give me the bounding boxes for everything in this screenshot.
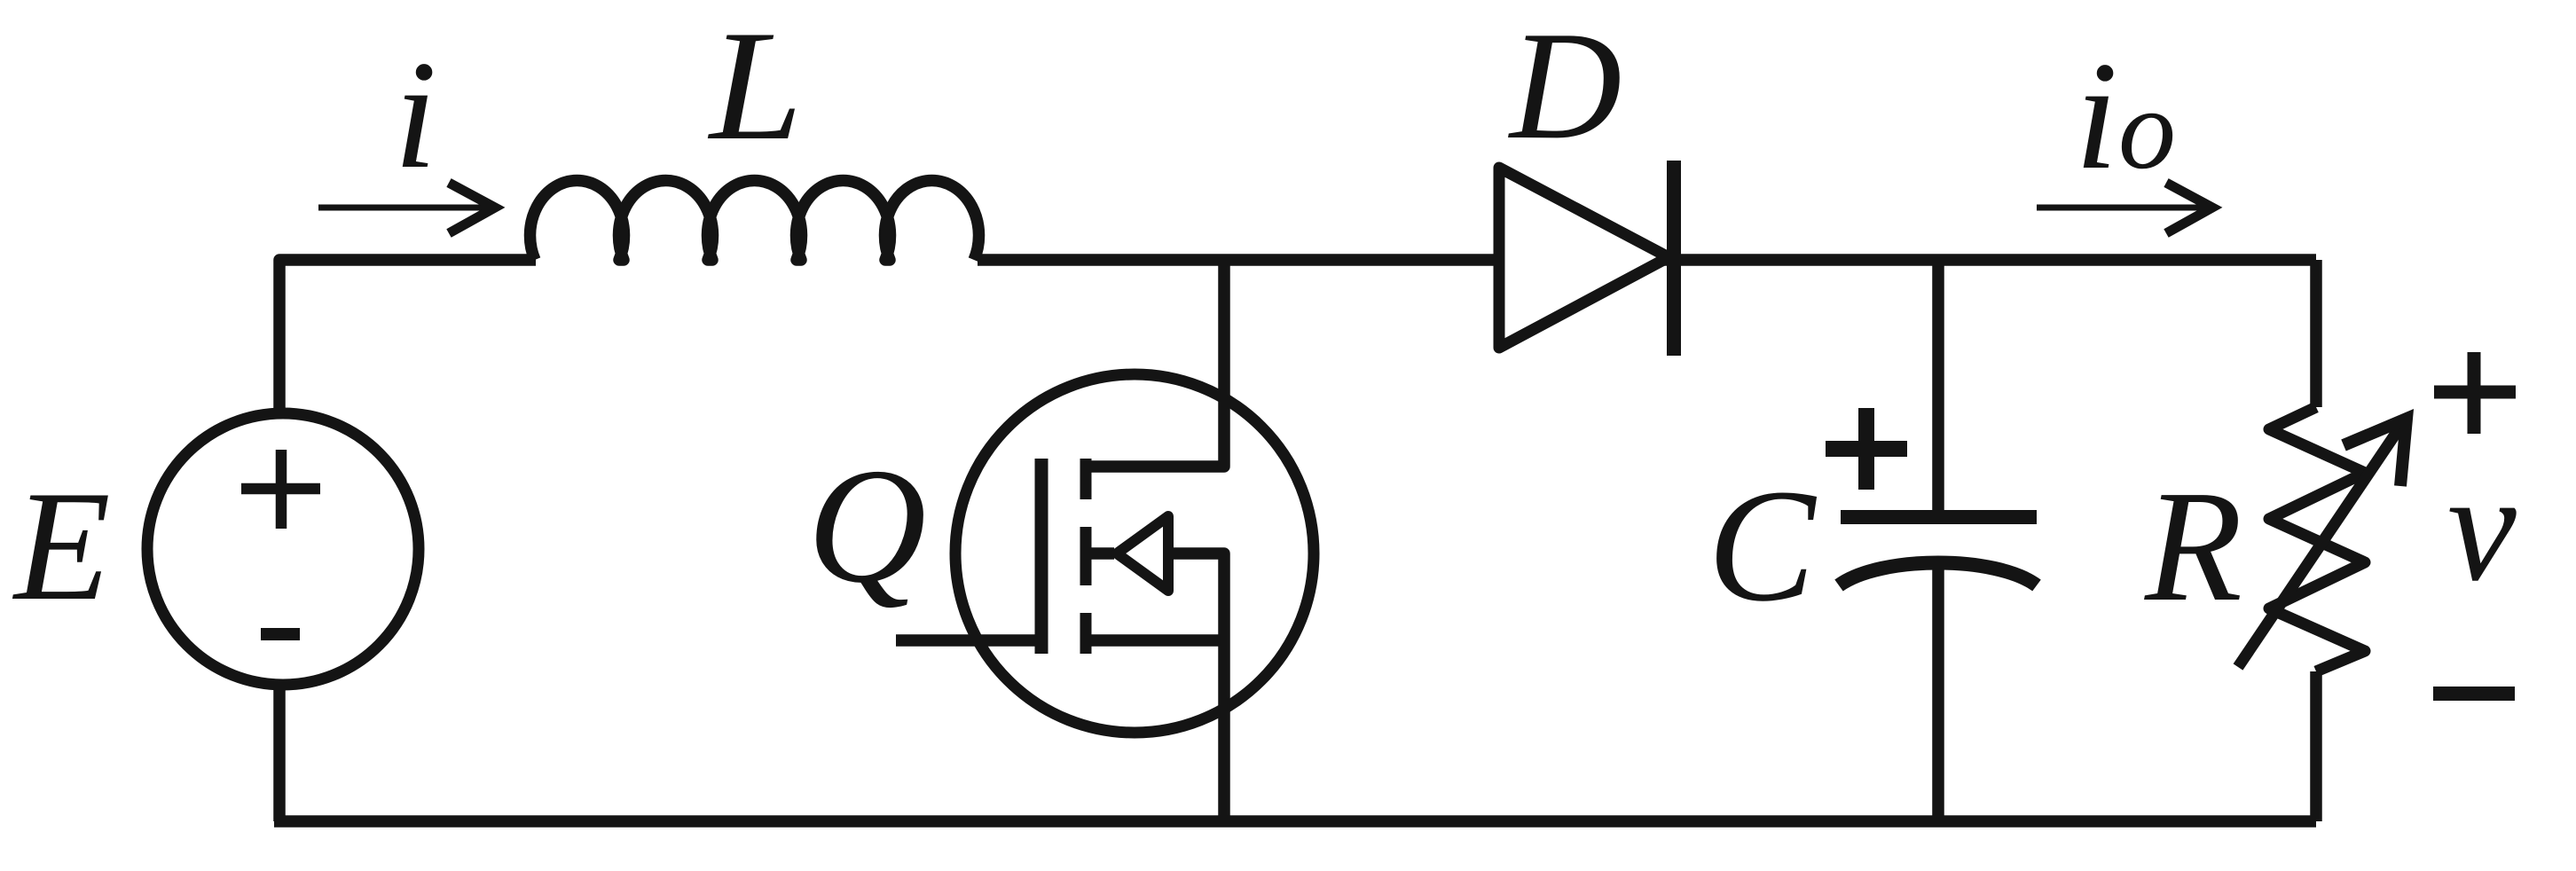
wire: MOSFET source vertical to bottom rail bbox=[1218, 640, 1230, 821]
MOSFET body stub bbox=[1091, 547, 1114, 560]
wire: capacitor top lead bbox=[1932, 260, 1944, 517]
minus sign for v bbox=[2433, 687, 2515, 701]
svg-text:o: o bbox=[2118, 66, 2176, 193]
voltage source E circle bbox=[147, 413, 419, 685]
svg-text:i: i bbox=[2075, 29, 2118, 201]
plus sign inside E bbox=[241, 450, 320, 529]
MOSFET channel bar (dashed) bbox=[1080, 459, 1092, 654]
svg-text:v: v bbox=[2447, 441, 2517, 613]
wire: bottom rail bbox=[274, 815, 2316, 828]
output current arrow io bbox=[2037, 183, 2212, 233]
variable resistor arrow shaft bbox=[2238, 424, 2402, 667]
inductor L bbox=[530, 180, 979, 260]
wire: right vertical from top corner to resistor bbox=[2310, 260, 2322, 407]
wire: MOSFET drain vertical from top rail bbox=[1086, 260, 1224, 467]
MOSFET Q circle bbox=[955, 374, 1314, 733]
resistor R zigzag (variable) bbox=[2269, 407, 2365, 671]
svg-text:i: i bbox=[394, 28, 437, 200]
svg-text:Q: Q bbox=[807, 435, 926, 617]
wire: source branch bbox=[1086, 634, 1224, 647]
MOSFET body arrow triangle bbox=[1117, 516, 1168, 591]
diode D triangle bbox=[1499, 168, 1669, 348]
svg-text:E: E bbox=[12, 458, 111, 633]
svg-text:D: D bbox=[1508, 0, 1622, 171]
wire: top-left corner, left vertical down to source E bbox=[279, 260, 536, 410]
wire: top rail from inductor to right corner bbox=[978, 254, 2316, 266]
wire: E bottom lead to bottom rail bbox=[273, 685, 286, 821]
svg-text:C: C bbox=[1708, 457, 1818, 635]
wire: capacitor bottom lead bbox=[1932, 569, 1944, 821]
plus sign for v bbox=[2434, 352, 2516, 434]
wire: gate lead bbox=[896, 634, 1041, 647]
capacitor C top plate bbox=[1841, 510, 2037, 524]
variable resistor arrowhead bbox=[2344, 419, 2407, 486]
wire: resistor bottom to bottom rail bbox=[2310, 671, 2322, 821]
plus sign at capacitor bbox=[1826, 408, 1907, 490]
svg-text:L: L bbox=[707, 0, 803, 173]
current arrow i bbox=[318, 183, 495, 233]
capacitor C bottom plate (curved) bbox=[1839, 563, 2037, 586]
diode D cathode bar bbox=[1667, 161, 1681, 356]
svg-text:R: R bbox=[2144, 458, 2242, 634]
wire: body branch to source vertical bbox=[1168, 553, 1224, 640]
minus sign inside E bbox=[261, 628, 300, 640]
MOSFET gate bar bbox=[1035, 459, 1048, 654]
